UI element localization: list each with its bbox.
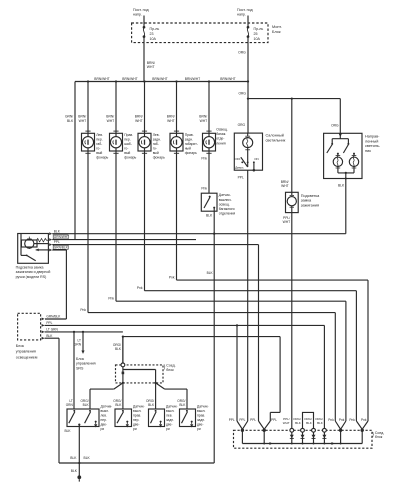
svg-text:Pnk: Pnk bbox=[108, 296, 114, 300]
svg-text:замка: замка bbox=[301, 199, 312, 203]
svg-text:Pnk: Pnk bbox=[361, 418, 367, 422]
svg-text:10А: 10А bbox=[150, 37, 157, 41]
svg-text:23: 23 bbox=[150, 32, 154, 36]
svg-text:BLK: BLK bbox=[179, 403, 186, 407]
svg-text:ORG: ORG bbox=[238, 92, 246, 96]
svg-text:пер.: пер. bbox=[96, 137, 103, 141]
svg-text:ORG: ORG bbox=[238, 123, 246, 127]
svg-text:10А: 10А bbox=[254, 37, 261, 41]
svg-text:BRN/: BRN/ bbox=[135, 115, 143, 119]
svg-text:GRN/BLK: GRN/BLK bbox=[46, 314, 61, 318]
svg-text:Лев.: Лев. bbox=[96, 133, 103, 137]
svg-text:Пост. под: Пост. под bbox=[133, 8, 149, 12]
svg-text:Датчик-: Датчик- bbox=[197, 405, 209, 409]
svg-text:шаб-: шаб- bbox=[124, 142, 132, 146]
svg-text:ный: ный bbox=[185, 146, 191, 150]
svg-text:габарит-: габарит- bbox=[185, 142, 198, 146]
svg-text:две-: две- bbox=[166, 423, 173, 427]
svg-text:Лев.: Лев. bbox=[153, 133, 160, 137]
svg-text:Направ-: Направ- bbox=[365, 135, 380, 139]
svg-text:фонарь: фонарь bbox=[153, 156, 165, 160]
svg-text:BLK: BLK bbox=[206, 213, 213, 217]
svg-text:BRN/WHT: BRN/WHT bbox=[94, 77, 109, 81]
svg-text:BLK: BLK bbox=[70, 456, 77, 460]
svg-text:пер.: пер. bbox=[124, 137, 131, 141]
svg-text:ления: ления bbox=[216, 141, 226, 145]
svg-text:BLK: BLK bbox=[71, 469, 78, 473]
svg-text:PPL: PPL bbox=[271, 418, 277, 422]
svg-text:выкл.: выкл. bbox=[197, 409, 206, 413]
svg-text:выкл.: выкл. bbox=[101, 409, 110, 413]
svg-text:пер.: пер. bbox=[101, 418, 107, 422]
svg-text:Датчик-: Датчик- bbox=[219, 193, 231, 197]
svg-text:LT: LT bbox=[69, 399, 73, 403]
svg-text:Pnk: Pnk bbox=[339, 418, 345, 422]
svg-text:BLK: BLK bbox=[46, 334, 53, 338]
svg-text:выкл.: выкл. bbox=[133, 409, 142, 413]
svg-text:ON: ON bbox=[254, 157, 259, 161]
svg-text:ри: ри bbox=[166, 427, 170, 431]
svg-text:ник: ник bbox=[365, 149, 371, 153]
svg-text:Пр-ль: Пр-ль bbox=[254, 27, 264, 31]
svg-text:задн.: задн. bbox=[153, 137, 161, 141]
svg-text:фонарь: фонарь bbox=[124, 156, 136, 160]
svg-text:PPL: PPL bbox=[229, 418, 235, 422]
svg-text:WHT: WHT bbox=[283, 220, 291, 224]
svg-text:напр.: напр. bbox=[237, 13, 246, 17]
svg-text:BLK: BLK bbox=[306, 421, 312, 425]
svg-text:управления: управления bbox=[76, 362, 96, 366]
svg-text:ри: ри bbox=[101, 427, 105, 431]
svg-text:ORG/: ORG/ bbox=[113, 399, 121, 403]
svg-text:Датчик-: Датчик- bbox=[133, 405, 145, 409]
svg-text:задн.: задн. bbox=[166, 418, 174, 422]
svg-text:25: 25 bbox=[254, 32, 258, 36]
svg-text:го-: го- bbox=[124, 146, 128, 150]
svg-text:Пр-ль: Пр-ль bbox=[150, 27, 160, 31]
svg-text:PPL: PPL bbox=[238, 175, 244, 179]
svg-text:GRN/BLK: GRN/BLK bbox=[54, 246, 69, 250]
svg-text:Pnk: Pnk bbox=[328, 418, 334, 422]
svg-text:PPL: PPL bbox=[250, 418, 256, 422]
svg-text:BLK: BLK bbox=[338, 184, 345, 188]
svg-text:BRN/: BRN/ bbox=[106, 115, 114, 119]
svg-text:BLK: BLK bbox=[148, 403, 155, 407]
svg-text:ORG/: ORG/ bbox=[146, 399, 154, 403]
svg-text:ORG/: ORG/ bbox=[80, 399, 88, 403]
svg-text:Pnk: Pnk bbox=[137, 286, 143, 290]
svg-text:WHT: WHT bbox=[281, 184, 289, 188]
svg-text:BRN/WHT: BRN/WHT bbox=[122, 77, 137, 81]
svg-text:ORG: ORG bbox=[331, 124, 339, 128]
svg-text:BLK: BLK bbox=[295, 421, 301, 425]
svg-text:WHT: WHT bbox=[107, 119, 115, 123]
svg-text:PPL: PPL bbox=[46, 321, 52, 325]
svg-text:GRN: GRN bbox=[66, 403, 74, 407]
svg-text:ORG/: ORG/ bbox=[177, 399, 185, 403]
svg-text:BRN/: BRN/ bbox=[147, 61, 155, 65]
svg-text:Pnk: Pnk bbox=[201, 156, 207, 160]
svg-text:две-: две- bbox=[101, 423, 108, 427]
svg-text:Прав.: Прав. bbox=[124, 133, 133, 137]
svg-text:ORG/: ORG/ bbox=[113, 343, 121, 347]
svg-text:зажигания и дверной: зажигания и дверной bbox=[16, 270, 51, 274]
svg-text:LT: LT bbox=[78, 339, 82, 343]
svg-text:светиль-: светиль- bbox=[365, 144, 381, 148]
svg-text:Салонный: Салонный bbox=[266, 134, 284, 138]
svg-text:Pnk: Pnk bbox=[201, 186, 207, 190]
svg-text:ORG: ORG bbox=[238, 51, 246, 55]
svg-text:BRN/: BRN/ bbox=[167, 115, 175, 119]
svg-text:фонарь: фонарь bbox=[185, 151, 197, 155]
svg-text:го-: го- bbox=[96, 146, 100, 150]
svg-text:BRN/WHT: BRN/WHT bbox=[220, 77, 235, 81]
svg-text:Прав.: Прав. bbox=[185, 133, 194, 137]
svg-text:WHT: WHT bbox=[200, 119, 208, 123]
svg-text:Pnk: Pnk bbox=[80, 308, 86, 312]
svg-text:PPL: PPL bbox=[239, 418, 245, 422]
svg-text:отделения: отделения bbox=[219, 211, 236, 215]
svg-text:блок: блок bbox=[166, 368, 174, 372]
svg-text:вый: вый bbox=[153, 151, 159, 155]
svg-text:ри: ри bbox=[197, 427, 201, 431]
svg-text:напр.: напр. bbox=[133, 13, 142, 17]
svg-text:BLK: BLK bbox=[84, 456, 91, 460]
svg-text:BLK: BLK bbox=[67, 119, 74, 123]
svg-text:две-: две- bbox=[133, 423, 140, 427]
svg-text:Датчик-: Датчик- bbox=[166, 405, 178, 409]
svg-text:GRN: GRN bbox=[74, 343, 82, 347]
svg-text:задн.: задн. bbox=[185, 137, 193, 141]
svg-text:ри: ри bbox=[133, 427, 137, 431]
svg-text:Pnk: Pnk bbox=[349, 418, 355, 422]
svg-text:WHT: WHT bbox=[135, 119, 143, 123]
svg-text:габ-: габ- bbox=[96, 142, 102, 146]
svg-text:Подсветка: Подсветка bbox=[301, 194, 320, 198]
svg-text:две-: две- bbox=[197, 423, 204, 427]
svg-text:Блок: Блок bbox=[16, 344, 25, 348]
svg-text:ленный: ленный bbox=[365, 139, 378, 143]
svg-text:управления: управления bbox=[16, 350, 36, 354]
svg-text:GRN/WHT: GRN/WHT bbox=[54, 235, 69, 239]
svg-text:прав.: прав. bbox=[197, 414, 205, 418]
svg-text:го-: го- bbox=[153, 146, 157, 150]
svg-text:зажигания: зажигания bbox=[301, 203, 319, 207]
svg-text:SRS: SRS bbox=[76, 366, 84, 370]
svg-text:BRN/: BRN/ bbox=[281, 180, 289, 184]
svg-text:PPL/: PPL/ bbox=[283, 216, 290, 220]
svg-text:WHT: WHT bbox=[283, 421, 290, 425]
svg-text:фонарь: фонарь bbox=[96, 156, 108, 160]
svg-text:BRN/: BRN/ bbox=[199, 115, 207, 119]
svg-text:габ-: габ- bbox=[153, 142, 159, 146]
svg-text:GRN/: GRN/ bbox=[65, 115, 73, 119]
svg-text:Блок: Блок bbox=[272, 30, 281, 34]
svg-text:OFF: OFF bbox=[235, 157, 241, 161]
svg-text:прав.: прав. bbox=[133, 414, 141, 418]
svg-text:BLK: BLK bbox=[115, 403, 122, 407]
svg-text:багаж.: багаж. bbox=[216, 132, 226, 136]
svg-text:освещением: освещением bbox=[16, 355, 38, 359]
svg-text:Освещ.: Освещ. bbox=[216, 128, 228, 132]
svg-text:LT GRN: LT GRN bbox=[46, 327, 58, 331]
svg-text:Соед.: Соед. bbox=[375, 431, 384, 435]
svg-text:Монт.: Монт. bbox=[272, 25, 282, 29]
svg-text:Пост. под: Пост. под bbox=[237, 8, 253, 12]
svg-text:блок: блок bbox=[375, 435, 383, 439]
svg-text:BLK: BLK bbox=[54, 229, 61, 233]
svg-text:выключ.: выключ. bbox=[219, 198, 232, 202]
svg-text:WHT: WHT bbox=[167, 119, 175, 123]
svg-text:Pnk: Pnk bbox=[169, 275, 175, 279]
svg-text:вый: вый bbox=[124, 151, 130, 155]
svg-text:BLK: BLK bbox=[83, 403, 90, 407]
svg-text:вый: вый bbox=[96, 151, 102, 155]
svg-text:WHT: WHT bbox=[147, 65, 155, 69]
svg-text:WHT: WHT bbox=[79, 119, 87, 123]
svg-text:BLK: BLK bbox=[207, 271, 214, 275]
svg-text:PPL: PPL bbox=[54, 240, 60, 244]
svg-text:Дверь: Дверь bbox=[235, 166, 244, 170]
svg-text:BLK: BLK bbox=[115, 347, 122, 351]
svg-text:выкл.: выкл. bbox=[166, 409, 175, 413]
svg-text:BRN/WHT: BRN/WHT bbox=[152, 77, 167, 81]
svg-text:багажного: багажного bbox=[219, 207, 235, 211]
svg-text:BRN/WHT: BRN/WHT bbox=[185, 77, 200, 81]
svg-text:ручки (модели RS): ручки (модели RS) bbox=[16, 275, 47, 279]
svg-text:лев.: лев. bbox=[166, 414, 173, 418]
svg-text:Блок: Блок bbox=[76, 357, 84, 361]
svg-text:Подсветка замка: Подсветка замка bbox=[16, 265, 44, 269]
svg-text:освещ.: освещ. bbox=[219, 202, 230, 206]
svg-text:пер.: пер. bbox=[133, 418, 139, 422]
svg-text:BLK: BLK bbox=[317, 421, 323, 425]
svg-text:Соед.: Соед. bbox=[166, 363, 175, 367]
svg-text:BRN/: BRN/ bbox=[78, 115, 86, 119]
svg-text:задн.: задн. bbox=[197, 418, 205, 422]
svg-text:BLK: BLK bbox=[64, 429, 71, 433]
svg-text:Датчик-: Датчик- bbox=[101, 405, 113, 409]
svg-text:светильник: светильник bbox=[266, 138, 286, 142]
svg-text:отде-: отде- bbox=[216, 137, 224, 141]
svg-text:лев.: лев. bbox=[101, 414, 108, 418]
